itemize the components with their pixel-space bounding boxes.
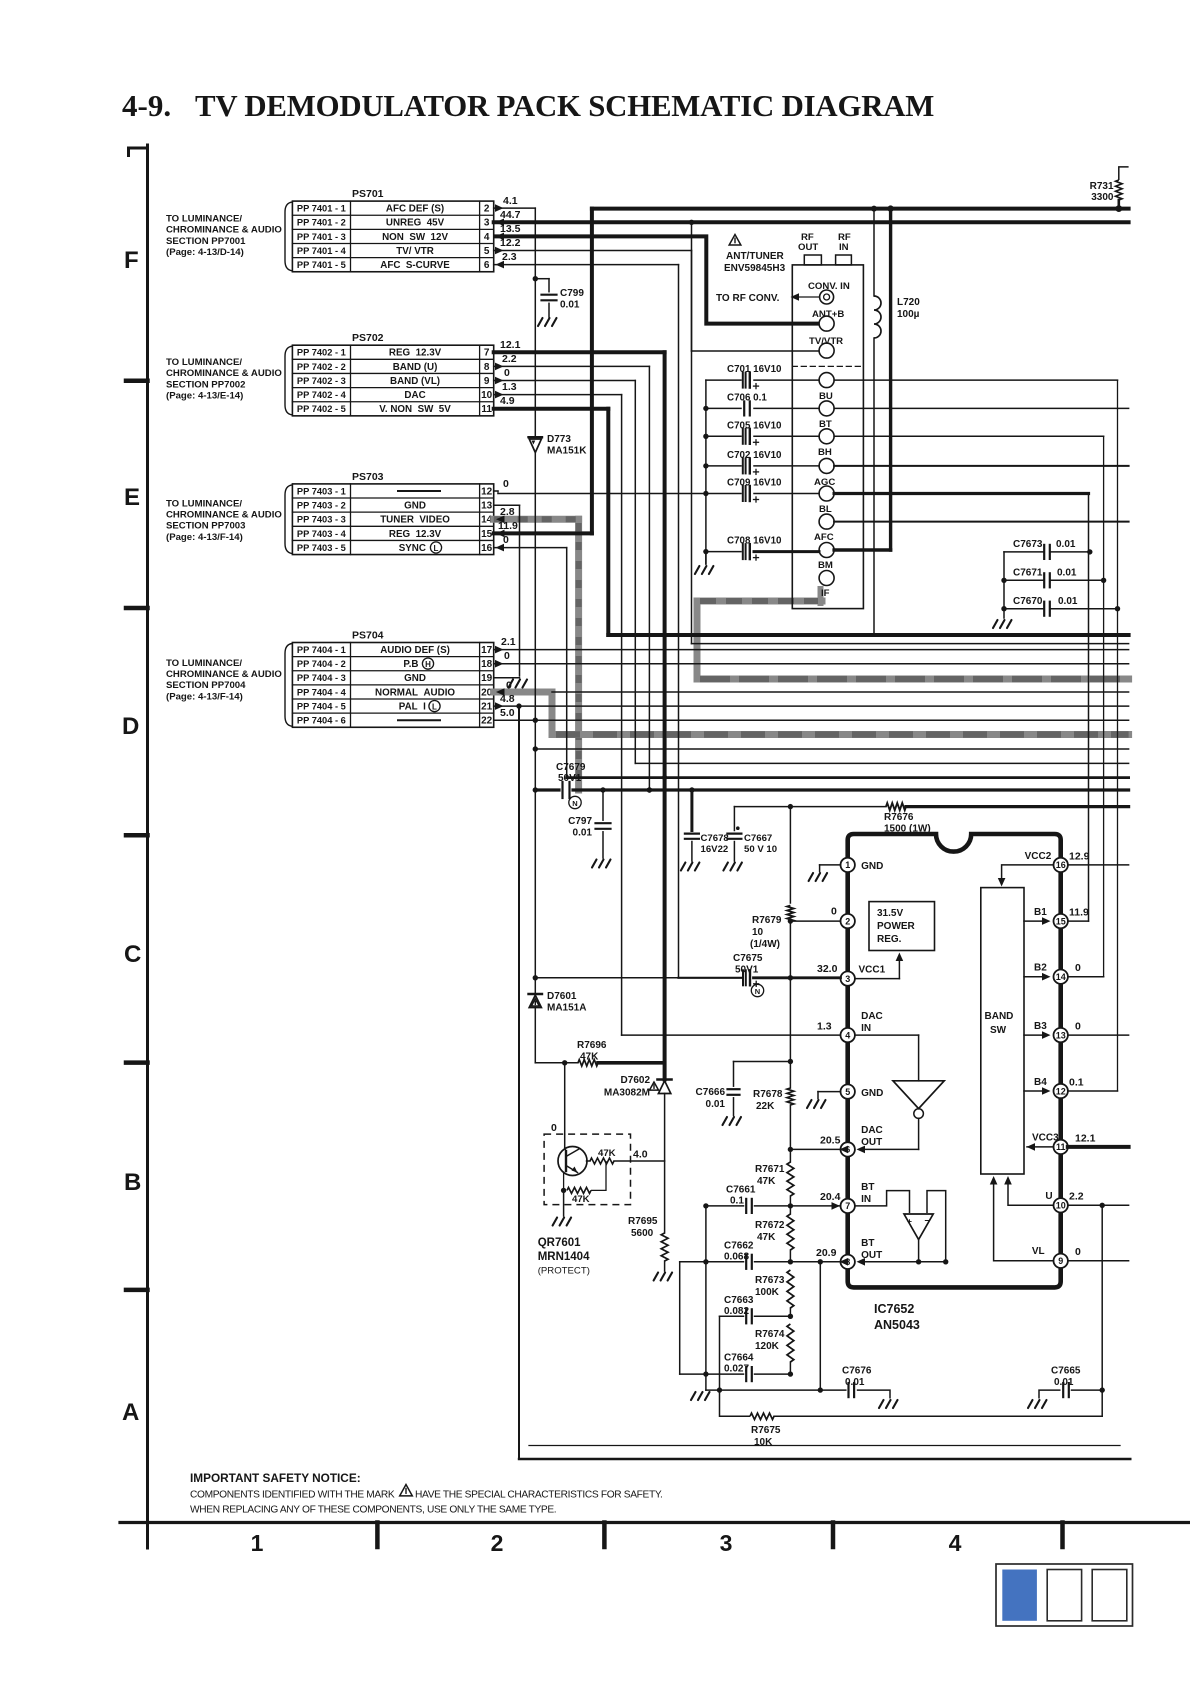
svg-text:D7601: D7601 xyxy=(547,991,577,1002)
svg-text:16V22: 16V22 xyxy=(701,844,729,855)
svg-text:PAL I: PAL I xyxy=(399,701,431,712)
wire BU band line xyxy=(834,379,1117,381)
svg-text:L720: L720 xyxy=(897,297,920,308)
svg-text:20.4: 20.4 xyxy=(820,1191,841,1203)
svg-text:A: A xyxy=(122,1399,139,1426)
svg-text:11.9: 11.9 xyxy=(498,520,518,532)
svg-text:8: 8 xyxy=(484,362,490,373)
svg-text:TV DEMODULATOR PACK SCHEMATIC: TV DEMODULATOR PACK SCHEMATIC DIAGRAM xyxy=(195,89,934,123)
svg-text:20.9: 20.9 xyxy=(816,1247,837,1259)
svg-text:0.01: 0.01 xyxy=(1054,1377,1074,1388)
svg-text:D: D xyxy=(122,713,139,740)
svg-text:GND: GND xyxy=(861,1088,883,1099)
svg-text:BAND (U): BAND (U) xyxy=(393,362,438,373)
diode D7602 xyxy=(658,1078,672,1081)
svg-text:BH: BH xyxy=(818,447,832,458)
gray trace normal audio from PS704 pin 20 xyxy=(494,689,552,696)
wire P.B from pin 18 xyxy=(494,663,1129,665)
svg-text:11: 11 xyxy=(481,404,492,415)
wire NORMAL AUDIO from pin 20 xyxy=(552,691,1129,693)
svg-text:PS702: PS702 xyxy=(352,332,384,344)
svg-text:U: U xyxy=(1045,1191,1052,1202)
svg-text:0: 0 xyxy=(1075,1246,1081,1258)
svg-text:N: N xyxy=(755,987,760,996)
capacitor C708 xyxy=(703,549,708,554)
svg-text:50 V 10: 50 V 10 xyxy=(744,844,777,855)
ladder left ground rail xyxy=(705,1206,707,1390)
svg-text:7: 7 xyxy=(484,348,490,359)
svg-text:50V1: 50V1 xyxy=(735,965,759,976)
svg-text:BM: BM xyxy=(818,560,833,571)
svg-text:10: 10 xyxy=(1056,1201,1066,1211)
svg-text:CHROMINANCE & AUDIO: CHROMINANCE & AUDIO xyxy=(166,510,282,521)
svg-text:1.3: 1.3 xyxy=(817,1021,832,1033)
wire VCC1 line from AFC S-curve branch xyxy=(679,977,742,979)
svg-text:IN: IN xyxy=(861,1194,871,1205)
svg-text:MA3082M: MA3082M xyxy=(604,1088,650,1099)
resistor R7675 xyxy=(720,1390,751,1416)
IC pin 14 xyxy=(1054,970,1068,984)
svg-text:SYNC: SYNC xyxy=(399,543,432,554)
capacitor C7663 xyxy=(720,1315,744,1317)
svg-text:19: 19 xyxy=(481,673,493,684)
svg-text:16: 16 xyxy=(1056,860,1066,870)
tuner pin BM xyxy=(819,543,834,558)
wire IC pin 2 external xyxy=(790,920,840,922)
svg-text:QR7601: QR7601 xyxy=(538,1237,581,1249)
wire R7676 supply line xyxy=(734,806,886,808)
wire AFC DEF vertical node xyxy=(534,208,536,437)
wire VCC3 into band switch xyxy=(1027,1146,1054,1148)
svg-text:COMPONENTS IDENTIFIED WITH THE: COMPONENTS IDENTIFIED WITH THE MARK xyxy=(190,1490,395,1501)
wire REG 12.3V pin 15 to top bus xyxy=(494,531,592,535)
svg-text:(PROTECT): (PROTECT) xyxy=(538,1266,590,1277)
resistor R7674 xyxy=(787,1324,794,1362)
IC pin 16 xyxy=(1054,858,1068,872)
resistor R731 xyxy=(1119,167,1129,180)
svg-text:B1: B1 xyxy=(1034,907,1047,918)
IC pin 9 xyxy=(1054,1254,1068,1268)
svg-text:12.1: 12.1 xyxy=(500,339,521,351)
capacitor C706 xyxy=(706,407,741,409)
svg-text:2.8: 2.8 xyxy=(500,506,515,518)
svg-text:9: 9 xyxy=(1058,1256,1063,1266)
svg-text:C7670: C7670 xyxy=(1013,596,1043,607)
gray trace tuner video from PS703 pin 14 xyxy=(494,516,579,523)
svg-text:V. NON SW 5V: V. NON SW 5V xyxy=(379,404,451,415)
wire BH band line xyxy=(834,435,1104,437)
svg-text:TV/ VTR: TV/ VTR xyxy=(396,246,434,257)
wire branch down from UNREG line xyxy=(691,222,693,643)
IC pin 12 xyxy=(1054,1084,1068,1098)
svg-text:TO LUMINANCE/: TO LUMINANCE/ xyxy=(166,658,242,669)
svg-text:0.01: 0.01 xyxy=(1057,568,1077,579)
svg-text:B4: B4 xyxy=(1034,1077,1047,1088)
svg-text:PP 7401 - 2: PP 7401 - 2 xyxy=(297,218,346,228)
svg-text:0.01: 0.01 xyxy=(845,1377,865,1388)
wire AFC S-CURVE from pin 6 xyxy=(494,264,679,266)
svg-text:31.5V: 31.5V xyxy=(877,908,903,919)
svg-text:C709 16V10: C709 16V10 xyxy=(727,478,782,489)
capacitor C7678 xyxy=(690,790,693,831)
svg-text:120K: 120K xyxy=(755,1341,780,1352)
arrow tuner video pin 14 xyxy=(496,516,505,524)
svg-text:SECTION PP7004: SECTION PP7004 xyxy=(166,680,246,691)
wire PAL I from pin 21 xyxy=(494,705,1129,707)
svg-text:CHROMINANCE & AUDIO: CHROMINANCE & AUDIO xyxy=(166,669,282,680)
svg-text:(1/4W): (1/4W) xyxy=(750,939,780,950)
svg-text:0: 0 xyxy=(1075,962,1081,974)
svg-text:13: 13 xyxy=(481,500,493,511)
capacitor C799 xyxy=(533,276,538,281)
wire GND from pin 13 xyxy=(494,504,520,506)
svg-text:11.9: 11.9 xyxy=(1069,907,1089,919)
svg-text:F: F xyxy=(124,247,139,274)
svg-text:3: 3 xyxy=(720,1530,733,1556)
svg-text:OUT: OUT xyxy=(861,1250,882,1261)
svg-text:3: 3 xyxy=(484,218,490,229)
svg-text:ANT+B: ANT+B xyxy=(812,309,844,320)
left grid border xyxy=(146,145,149,1548)
wire REG thick branch xyxy=(567,776,1129,779)
capacitor C797 xyxy=(602,790,604,820)
wire BAND U from pin 8 xyxy=(494,365,650,367)
svg-text:R731: R731 xyxy=(1090,181,1114,192)
transistor QR7601 xyxy=(544,1134,630,1205)
IC pin 11 xyxy=(1054,1140,1068,1154)
capacitor C7666 xyxy=(734,1061,791,1063)
svg-text:0.01: 0.01 xyxy=(1058,596,1078,607)
IC pin 8 xyxy=(841,1255,855,1269)
circled H on P.B pin xyxy=(422,658,433,669)
svg-text:C7663: C7663 xyxy=(724,1295,754,1306)
svg-text:BL: BL xyxy=(819,504,832,515)
svg-text:C7665: C7665 xyxy=(1051,1366,1081,1377)
svg-text:IF: IF xyxy=(821,588,830,599)
svg-text:PP 7403 - 3: PP 7403 - 3 xyxy=(297,515,346,525)
31.5V power reg box xyxy=(869,902,935,951)
svg-text:REG 12.3V: REG 12.3V xyxy=(389,529,442,540)
wire IC pin 15 B1 external xyxy=(1068,920,1089,922)
svg-text:47K: 47K xyxy=(572,1194,590,1205)
svg-text:C708 16V10: C708 16V10 xyxy=(727,536,782,547)
svg-text:2.1: 2.1 xyxy=(501,636,516,648)
svg-text:47K: 47K xyxy=(580,1052,599,1063)
svg-text:MA151A: MA151A xyxy=(547,1003,586,1014)
IC pin 6 xyxy=(841,1142,855,1156)
wire IC pin 11 VCC3 external xyxy=(1068,1145,1129,1149)
svg-text:18: 18 xyxy=(481,659,493,670)
tuner pin BL xyxy=(819,486,834,501)
svg-text:11: 11 xyxy=(1056,1142,1066,1152)
svg-text:3300: 3300 xyxy=(1091,192,1114,203)
resistor R7672 xyxy=(787,1214,794,1250)
wire BT band line xyxy=(834,407,1129,409)
capacitor C7675 xyxy=(742,970,744,985)
svg-text:NORMAL AUDIO: NORMAL AUDIO xyxy=(375,687,455,698)
svg-text:0.1: 0.1 xyxy=(1069,1077,1084,1089)
svg-text:32.0: 32.0 xyxy=(817,963,838,975)
svg-text:MA151K: MA151K xyxy=(547,446,587,457)
wire IC pin 16 VCC2 external xyxy=(1068,864,1129,866)
wire IC pin 13 B3 external xyxy=(1068,1034,1129,1036)
wire GND pin 19 to ground xyxy=(494,677,520,679)
svg-text:5: 5 xyxy=(845,1087,850,1097)
svg-text:VL: VL xyxy=(1032,1246,1045,1257)
svg-text:R7675: R7675 xyxy=(751,1425,781,1436)
wire IC pin 12 B4 external xyxy=(1068,1090,1118,1092)
svg-text:−: − xyxy=(924,1216,929,1226)
svg-text:0: 0 xyxy=(503,478,509,490)
resistor ladder vertical R7679 xyxy=(789,807,791,903)
svg-text:0.01: 0.01 xyxy=(1056,539,1076,550)
ground for C767x group xyxy=(1003,552,1005,618)
svg-text:PP 7404 - 5: PP 7404 - 5 xyxy=(297,701,346,711)
wire 0V from pin 12 to cap bus xyxy=(494,490,498,492)
svg-text:PP 7402 - 1: PP 7402 - 1 xyxy=(297,348,346,358)
wire V NON SW 5V from pin 11 xyxy=(494,407,609,411)
capacitor C701 xyxy=(706,379,741,381)
svg-text:TUNER VIDEO: TUNER VIDEO xyxy=(380,515,450,526)
svg-text:C706 0.1: C706 0.1 xyxy=(727,392,767,403)
tuner pin AGC xyxy=(819,458,834,473)
svg-text:R7672: R7672 xyxy=(755,1220,785,1231)
wire TV/VTR from pin 5 xyxy=(494,250,692,252)
svg-text:R7674: R7674 xyxy=(755,1329,785,1340)
resistor R7695 xyxy=(661,1233,668,1261)
svg-text:4.1: 4.1 xyxy=(503,195,518,207)
connector PS702 table xyxy=(292,345,493,416)
svg-text:100µ: 100µ xyxy=(897,309,920,320)
svg-text:10K: 10K xyxy=(754,1437,773,1448)
svg-text:AFC DEF (S): AFC DEF (S) xyxy=(386,204,444,215)
connector PS704 table xyxy=(292,643,493,728)
svg-text:C705 16V10: C705 16V10 xyxy=(727,420,782,431)
svg-text:C7679: C7679 xyxy=(556,762,586,773)
wire IC pin 9 VL external xyxy=(1068,1260,1129,1262)
wire DAC from pin 10 to IC pin 4 xyxy=(494,394,622,396)
tuner pin BU xyxy=(819,373,834,388)
resistor R7678 xyxy=(787,1088,794,1105)
capacitor C7676 line xyxy=(706,1389,846,1391)
resistor 47K emitter xyxy=(561,1188,566,1193)
svg-text:4: 4 xyxy=(484,232,490,243)
wire AFC DEF from pin 2 xyxy=(494,207,536,209)
diode D773 xyxy=(529,436,543,438)
svg-text:TV/VTR: TV/VTR xyxy=(809,336,843,347)
svg-text:PS704: PS704 xyxy=(352,630,384,642)
svg-text:DAC: DAC xyxy=(404,390,425,401)
svg-text:VCC1: VCC1 xyxy=(859,965,886,976)
svg-text:REG.: REG. xyxy=(877,934,902,945)
svg-text:BT: BT xyxy=(861,1182,874,1193)
connector PS703 table xyxy=(292,484,493,555)
svg-text:0: 0 xyxy=(506,680,512,692)
svg-text:IN: IN xyxy=(861,1023,871,1034)
svg-text:B2: B2 xyxy=(1034,963,1047,974)
wire BM to riser xyxy=(834,548,891,551)
capacitor C7661 on BT IN line xyxy=(706,1205,744,1207)
wire from pin 22 xyxy=(494,719,1129,721)
svg-text:2: 2 xyxy=(845,916,850,926)
svg-text:D7602: D7602 xyxy=(621,1075,651,1086)
wire VL into band switch xyxy=(994,1179,1054,1261)
top supply bus UNREG xyxy=(592,207,1129,211)
IC pin 1 xyxy=(841,858,855,872)
svg-text:10: 10 xyxy=(752,927,764,938)
resistor R7673 xyxy=(787,1270,794,1308)
svg-text:PP 7402 - 2: PP 7402 - 2 xyxy=(297,362,346,372)
tuner pin BH xyxy=(819,429,834,444)
wire AFC line xyxy=(834,521,1129,523)
tuner pin BT xyxy=(819,401,834,416)
wire AGC line xyxy=(834,465,1129,467)
wire C7679 supply line xyxy=(535,788,559,791)
svg-text:TO LUMINANCE/: TO LUMINANCE/ xyxy=(166,357,242,368)
svg-text:DAC: DAC xyxy=(861,1125,883,1136)
svg-text:0: 0 xyxy=(504,367,510,379)
wire IC pin 14 B2 external xyxy=(1068,976,1104,978)
svg-text:CHROMINANCE & AUDIO: CHROMINANCE & AUDIO xyxy=(166,368,282,379)
svg-text:R7671: R7671 xyxy=(755,1164,785,1175)
svg-text:PP 7404 - 4: PP 7404 - 4 xyxy=(297,687,347,697)
svg-text:IMPORTANT SAFETY NOTICE:: IMPORTANT SAFETY NOTICE: xyxy=(190,1471,361,1485)
bottom grid border xyxy=(120,1521,1190,1524)
svg-text:C7667: C7667 xyxy=(744,833,772,844)
svg-text:HAVE THE SPECIAL CHARACTERISTI: HAVE THE SPECIAL CHARACTERISTICS FOR SAF… xyxy=(415,1490,662,1501)
capacitor C7667 xyxy=(733,807,735,831)
svg-text:PP 7403 - 1: PP 7403 - 1 xyxy=(297,486,346,496)
svg-text:12: 12 xyxy=(481,486,493,497)
svg-text:0.01: 0.01 xyxy=(560,300,580,311)
navigation boxes bottom right xyxy=(996,1564,1133,1626)
tuner pin AFC xyxy=(819,514,834,529)
wire U into band switch xyxy=(1008,1179,1054,1205)
svg-text:PS703: PS703 xyxy=(352,471,384,483)
svg-text:13: 13 xyxy=(1056,1030,1066,1040)
svg-text:AFC S-CURVE: AFC S-CURVE xyxy=(380,260,450,271)
svg-text:REG 12.3V: REG 12.3V xyxy=(389,348,442,359)
svg-text:MRN1404: MRN1404 xyxy=(538,1251,590,1263)
svg-text:H: H xyxy=(425,660,431,669)
wire B1 arrow xyxy=(1024,920,1045,922)
wire base feed to QR7601 xyxy=(564,1063,566,1134)
svg-text:VCC2: VCC2 xyxy=(1025,851,1052,862)
svg-text:L: L xyxy=(434,544,439,553)
wire BAND VL from pin 9 xyxy=(494,380,636,382)
svg-text:R7673: R7673 xyxy=(755,1275,785,1286)
svg-text:12.2: 12.2 xyxy=(500,237,521,249)
svg-text:4.8: 4.8 xyxy=(500,693,515,705)
svg-text:0.1: 0.1 xyxy=(730,1196,744,1207)
connector PS701 table xyxy=(292,201,493,272)
svg-text:PP 7403 - 4: PP 7403 - 4 xyxy=(297,529,347,539)
svg-text:(Page: 4-13/F-14): (Page: 4-13/F-14) xyxy=(166,691,243,702)
svg-text:UNREG 45V: UNREG 45V xyxy=(386,218,445,229)
svg-text:0: 0 xyxy=(831,906,837,918)
svg-text:PP 7401 - 4: PP 7401 - 4 xyxy=(297,246,347,256)
wire SYNC from pin 16 xyxy=(494,547,567,549)
svg-text:PP 7401 - 3: PP 7401 - 3 xyxy=(297,232,346,242)
capacitor C709 xyxy=(706,493,741,495)
tuner block ANT/TUNER ENV59845H3 xyxy=(792,265,863,609)
resistor 47K collector xyxy=(587,1160,591,1162)
svg-text:5600: 5600 xyxy=(631,1228,654,1239)
svg-text:47K: 47K xyxy=(757,1232,776,1243)
capacitor C7662 on BT OUT line xyxy=(680,1261,744,1263)
capacitor C702 xyxy=(706,465,741,467)
wire DAC OUT external IC pin 6 xyxy=(790,1148,840,1150)
resistor R7671 xyxy=(787,1162,794,1196)
wire NON SW 12V from pin 4 to ANT+B xyxy=(494,236,819,323)
resistor R7696 xyxy=(578,1060,598,1066)
svg-text:R7696: R7696 xyxy=(577,1040,607,1051)
svg-text:L: L xyxy=(432,703,437,712)
svg-text:GND: GND xyxy=(404,500,426,511)
svg-text:R7676: R7676 xyxy=(884,812,914,823)
svg-text:5.0: 5.0 xyxy=(500,707,515,719)
svg-text:WHEN REPLACING ANY OF THESE CO: WHEN REPLACING ANY OF THESE COMPONENTS, … xyxy=(190,1505,556,1516)
capacitor C7665 line xyxy=(1028,1400,1047,1408)
svg-text:1: 1 xyxy=(251,1530,264,1556)
IC pin 4 xyxy=(841,1028,855,1042)
svg-text:ENV59845H3: ENV59845H3 xyxy=(724,263,786,274)
svg-text:9: 9 xyxy=(484,376,490,387)
svg-text:PP 7403 - 2: PP 7403 - 2 xyxy=(297,500,346,510)
ground for QR7601 emitter xyxy=(563,1190,565,1216)
wire AFC DEF branch at 977 xyxy=(535,977,678,979)
svg-text:2: 2 xyxy=(491,1530,504,1556)
svg-text:5: 5 xyxy=(484,246,490,257)
svg-text:POWER: POWER xyxy=(877,921,916,932)
wire VCC2 into band switch xyxy=(1002,865,1054,883)
svg-text:R7678: R7678 xyxy=(753,1089,783,1100)
svg-text:AN5043: AN5043 xyxy=(874,1318,920,1332)
svg-text:PP 7402 - 4: PP 7402 - 4 xyxy=(297,390,347,400)
svg-text:GND: GND xyxy=(404,673,426,684)
svg-text:14: 14 xyxy=(1056,972,1066,982)
ground bus for tuner caps xyxy=(705,380,707,564)
svg-text:C799: C799 xyxy=(560,288,584,299)
svg-text:4: 4 xyxy=(845,1030,850,1040)
wire AUDIO DEF from pin 17 xyxy=(494,649,1129,651)
svg-text:C701 16V10: C701 16V10 xyxy=(727,364,782,375)
svg-text:TO LUMINANCE/: TO LUMINANCE/ xyxy=(166,498,242,509)
wire BM riser to top bus xyxy=(889,209,892,550)
svg-text:12.1: 12.1 xyxy=(1075,1133,1096,1145)
lower enclosure border wire xyxy=(518,706,520,1459)
svg-text:BT: BT xyxy=(861,1238,874,1249)
wire to RF conv xyxy=(793,296,820,298)
wire REG 12.3V from pin 7 xyxy=(494,350,665,354)
wire B4 arrow xyxy=(1024,1090,1045,1092)
svg-text:4.9: 4.9 xyxy=(500,395,515,407)
svg-text:100K: 100K xyxy=(755,1287,780,1298)
svg-text:R7679: R7679 xyxy=(752,915,782,926)
capacitor C7671 xyxy=(1001,578,1006,583)
svg-text:R7695: R7695 xyxy=(628,1216,658,1227)
svg-text:16: 16 xyxy=(481,543,493,554)
svg-text:TO LUMINANCE/: TO LUMINANCE/ xyxy=(166,214,242,225)
svg-text:CHROMINANCE & AUDIO: CHROMINANCE & AUDIO xyxy=(166,225,282,236)
svg-text:22: 22 xyxy=(481,716,493,727)
svg-text:PP 7401 - 5: PP 7401 - 5 xyxy=(297,260,346,270)
diode D7601 xyxy=(529,993,543,995)
svg-text:PP 7404 - 3: PP 7404 - 3 xyxy=(297,673,346,683)
svg-text:BAND (VL): BAND (VL) xyxy=(390,376,440,387)
wire B3 arrow xyxy=(1024,1034,1045,1036)
wire B2 arrow xyxy=(1024,976,1045,978)
